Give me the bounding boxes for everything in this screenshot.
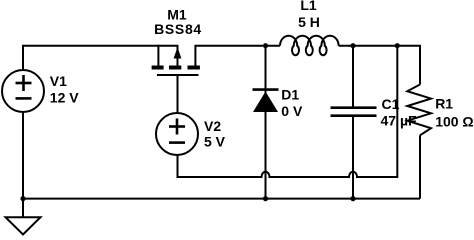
capacitor C1 bottom plate xyxy=(331,114,377,117)
wire: M1 source stub (left) xyxy=(157,45,159,66)
wire: top rail from L1 to R1 + R1 top lead xyxy=(339,46,420,85)
svg-text:D1: D1 xyxy=(281,86,299,102)
diode D1 triangle xyxy=(253,92,278,113)
svg-text:V1: V1 xyxy=(50,73,67,89)
svg-text:C1: C1 xyxy=(382,96,400,112)
junction dot: ground at V1 xyxy=(20,196,25,201)
resistor R1 zigzag xyxy=(407,85,431,136)
svg-text:100 Ω: 100 Ω xyxy=(435,114,473,130)
wire: bottom ground rail xyxy=(23,198,420,200)
junction dot: output node at C1 xyxy=(350,43,355,48)
wire: C1 branch vertical top xyxy=(352,46,354,108)
junction dot: switch node top xyxy=(263,43,268,48)
svg-text:47 µF: 47 µF xyxy=(381,112,418,128)
wire: C1 branch vertical bottom xyxy=(352,116,354,199)
capacitor C1 top plate xyxy=(331,106,377,109)
wire: M1 drain stub (right) + top rail to L1 xyxy=(195,46,280,66)
wire: V2 bottom return with hops over D1 and C1 wires, up to output node xyxy=(178,46,398,177)
V2 plus sign xyxy=(169,119,185,135)
V2 minus sign xyxy=(169,141,185,144)
svg-text:5 V: 5 V xyxy=(204,134,226,150)
inductor L1 coil xyxy=(280,36,339,56)
voltage source V2 circle xyxy=(156,113,198,155)
svg-text:R1: R1 xyxy=(435,96,453,112)
svg-text:V2: V2 xyxy=(204,118,221,134)
V1 plus sign xyxy=(16,75,32,91)
svg-text:BSS84: BSS84 xyxy=(154,21,202,37)
diode D1 cathode bar xyxy=(253,88,279,91)
wire: V1 top lead + top rail left segment + M1 middle stub xyxy=(23,46,178,69)
wire: D1 branch vertical (switch node to ground rail) xyxy=(265,46,267,199)
wire: R1 bottom lead xyxy=(419,135,421,198)
wire: M1 gate lead down to V2 xyxy=(177,76,179,113)
svg-text:0 V: 0 V xyxy=(281,103,303,119)
voltage source V1 circle xyxy=(2,70,44,112)
wire: V1 bottom lead xyxy=(22,112,24,217)
V1 minus sign xyxy=(16,97,32,100)
MOSFET M1 gate line xyxy=(157,74,199,76)
MOSFET M1 channel bars xyxy=(152,66,200,70)
svg-text:5 H: 5 H xyxy=(298,14,320,30)
junction dot: output node at V2 return xyxy=(395,43,400,48)
MOSFET M1 body arrow (P-channel, pointing up) xyxy=(174,47,182,59)
svg-text:12 V: 12 V xyxy=(50,90,79,106)
junction dot: ground at C1 xyxy=(350,196,355,201)
ground symbol xyxy=(6,217,41,234)
svg-text:L1: L1 xyxy=(300,0,317,13)
junction dot: ground at D1 xyxy=(263,196,268,201)
